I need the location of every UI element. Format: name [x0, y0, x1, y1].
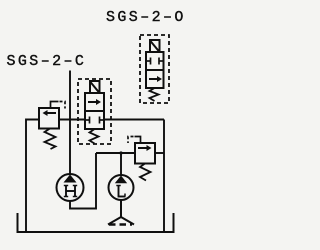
- valve body U1: [85, 93, 104, 129]
- pump H circle: [57, 174, 84, 201]
- pilot line RV2: [135, 137, 141, 144]
- suction strainer F1: [108, 200, 134, 225]
- solenoid coil of U1: [90, 81, 100, 93]
- pump H (high pressure pump): [57, 174, 84, 201]
- dashed enclosure of U2: [140, 35, 169, 103]
- return spring U1: [90, 129, 99, 144]
- valve body U2: [146, 52, 164, 88]
- letter H (drawn as path): [64, 186, 77, 197]
- junction: pump L outlet tee: [119, 151, 122, 154]
- wire: main pressure line (left relief to right drop): [59, 119, 85, 121]
- solenoid valve U1 (SGS-2-C, in circuit): [78, 79, 111, 144]
- solenoid diagonal of U2: [150, 41, 160, 53]
- position divider U2: [146, 69, 164, 71]
- svg-text:SGS–2–C: SGS–2–C: [7, 53, 87, 70]
- pump L flow triangle: [115, 176, 127, 184]
- pump L (low pressure pump): [109, 175, 134, 200]
- dashed enclosure of U1: [78, 79, 111, 144]
- wire: RV2 outlet to tank drop: [155, 152, 164, 154]
- flow arrow U2 (open position): [149, 76, 162, 82]
- wire: pump L outlet riser: [120, 153, 122, 176]
- oil tank T1: [18, 213, 174, 232]
- body RV2: [135, 143, 155, 164]
- relief valve RV1 (high pressure, left): [39, 102, 65, 150]
- wire: tank return drop (right side): [163, 120, 165, 233]
- return spring U2: [150, 88, 159, 101]
- letter L (drawn as path): [116, 186, 125, 197]
- solenoid valve U2 (SGS-2-O, option symbol): [140, 35, 169, 103]
- wire: main pressure line right segment: [104, 119, 164, 121]
- pump H flow triangle: [64, 175, 77, 183]
- solenoid diagonal of U1: [90, 82, 100, 94]
- solenoid coil of U2: [150, 40, 160, 52]
- wire: relief RV1 tank return: [26, 120, 39, 233]
- wire: pump H suction from low pressure gallery: [70, 153, 96, 209]
- wire: label leader / pump H pressure riser: [69, 71, 71, 175]
- pump L circle: [109, 175, 134, 200]
- body RV1: [39, 108, 59, 129]
- spring RV1: [45, 129, 56, 150]
- svg-text:SGS–2–O: SGS–2–O: [106, 9, 186, 26]
- flow arrow RV2: [138, 145, 152, 151]
- spring RV2: [140, 164, 151, 181]
- flow arrow U1 (energized position): [88, 99, 101, 105]
- position divider U1: [85, 110, 104, 112]
- blocked port marks U1 (closed position): [85, 117, 104, 124]
- wire: low pressure gallery: [96, 152, 135, 154]
- blocked port marks U2 (closed position): [146, 58, 164, 65]
- flow arrow RV1: [43, 110, 57, 116]
- pilot line RV1: [51, 102, 59, 109]
- relief valve RV2 (low pressure, right): [128, 137, 155, 181]
